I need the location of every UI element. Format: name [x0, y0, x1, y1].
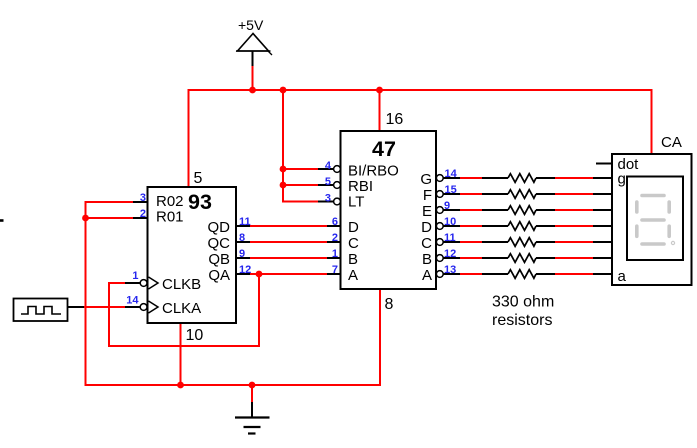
svg-text:CLKB: CLKB: [162, 276, 201, 293]
wire clock to CLKA: [84, 306, 125, 308]
segment net C wire: [443, 241, 612, 243]
wire ground stub: [251, 385, 253, 403]
ground: [235, 402, 270, 434]
display segment e: [635, 226, 639, 236]
U2 pin stub 5: [318, 184, 334, 186]
U1 pin number 11: [239, 216, 251, 228]
U2 pin number 2: [332, 232, 338, 244]
svg-text:R02: R02: [156, 193, 184, 210]
U2 pin number 10: [444, 216, 456, 228]
junction BI/RBO: [280, 166, 287, 173]
wire QB to B: [250, 257, 327, 259]
svg-text:C: C: [348, 235, 359, 252]
U2 output bubbles pins 14 15 9 10 11 12 13: [436, 175, 443, 278]
svg-text:CA: CA: [661, 134, 682, 151]
U1 CLKA bubble pin 14: [140, 304, 147, 311]
U2 pin number 16: [386, 111, 404, 128]
resistor R6 330 ohm: [508, 254, 536, 263]
svg-text:4: 4: [325, 160, 332, 172]
U1 pin number 10: [186, 327, 204, 344]
wire reset vertical to ground rail: [85, 201, 87, 386]
U2 pin stub C: [327, 241, 341, 243]
U2 pin stub 4: [318, 168, 334, 170]
svg-text:A: A: [348, 267, 358, 284]
display segment g: [642, 218, 664, 222]
wire rail to display CA: [651, 89, 653, 154]
svg-text:47: 47: [372, 137, 396, 161]
U2 pin stub A: [327, 273, 341, 275]
svg-text:5: 5: [194, 170, 203, 187]
svg-text:LT: LT: [348, 194, 364, 211]
wire R02 pin 3: [86, 201, 134, 203]
wire QA to A: [250, 273, 327, 275]
U1 pin number 2: [140, 208, 146, 220]
U1 pin number 14: [126, 295, 139, 307]
svg-text:2: 2: [140, 208, 146, 220]
U1 CLKA edge chevron: [149, 301, 159, 313]
display segment c: [667, 226, 671, 236]
junction rail at control vertical: [280, 87, 287, 94]
svg-text:BI/RBO: BI/RBO: [348, 163, 399, 180]
svg-text:12: 12: [239, 264, 251, 276]
resistor R4 330 ohm: [508, 222, 536, 231]
svg-text:10: 10: [186, 327, 204, 344]
U2 pin number 1: [332, 248, 338, 260]
U1 pin stub CLKA: [125, 306, 140, 308]
U2 bubble pin 5: [334, 182, 341, 189]
resistor R2 330 ohm: [508, 190, 536, 199]
junction ground rail pin10: [177, 382, 184, 389]
U1 CLKB edge chevron: [149, 277, 159, 289]
stray mark left edge: [0, 219, 4, 222]
svg-text:G: G: [420, 171, 432, 188]
svg-text:a: a: [618, 268, 627, 285]
wire clock output stub: [67, 306, 84, 308]
wire U2 pin 8 to ground rail: [379, 289, 381, 386]
svg-text:9: 9: [239, 248, 245, 260]
segment net G wire: [443, 177, 612, 179]
svg-text:7: 7: [332, 264, 338, 276]
U1 pin number 1: [132, 270, 138, 282]
svg-text:2: 2: [332, 232, 338, 244]
U2 pin number 4: [325, 160, 332, 172]
counter U1 7493: [148, 187, 237, 323]
U1 pin number 12: [239, 264, 251, 276]
segment net A wire: [443, 273, 612, 275]
U1 pin number 9: [239, 248, 245, 260]
U1 pin number 3: [140, 192, 146, 204]
power +5V symbol: [236, 17, 272, 66]
wire vertical to U2 control pins: [282, 89, 284, 202]
U1 pin stub QD: [236, 225, 250, 227]
display dot pin stub: [596, 163, 612, 165]
U2 pin number 3: [325, 193, 331, 205]
svg-text:CLKA: CLKA: [162, 300, 201, 317]
U1 pin stub QC: [236, 241, 250, 243]
segment net F wire: [443, 193, 612, 195]
seven segment display DS1: [612, 154, 692, 285]
resistor R5 330 ohm: [508, 238, 536, 247]
segment net B wire: [443, 257, 612, 259]
U2 bubble pin 3: [334, 198, 341, 205]
segment net D wire: [443, 225, 612, 227]
svg-text:3: 3: [140, 192, 146, 204]
U1 pin number 5: [194, 170, 203, 187]
wire rail to U2 pin 16: [379, 89, 381, 131]
svg-text:RBI: RBI: [348, 178, 373, 195]
display digit frame: [627, 177, 683, 261]
U2 pin number 5: [325, 176, 331, 188]
U1 pin stub R02: [133, 201, 148, 203]
svg-text:C: C: [421, 235, 432, 252]
wire QD to D: [250, 225, 327, 227]
display segment d: [642, 242, 664, 246]
U2 pin number 14: [445, 168, 458, 180]
wire R01 pin 2: [86, 217, 134, 219]
wire U2 pin 5 RBI: [282, 184, 318, 186]
U2 pin stub D: [327, 225, 341, 227]
display segment f: [635, 202, 639, 212]
U2 pin number 9: [444, 200, 450, 212]
svg-text:11: 11: [239, 216, 251, 228]
svg-text:1: 1: [332, 248, 338, 260]
svg-text:QC: QC: [208, 235, 231, 252]
wire U2 pin 4 BI/RBO: [282, 168, 318, 170]
U2 pin number 8: [385, 296, 394, 313]
U1 pin stub R01: [133, 217, 148, 219]
wire rail to U1 pin 5: [188, 89, 190, 187]
decoder U2 7447: [341, 131, 437, 289]
display segment b: [667, 202, 671, 212]
svg-text:D: D: [421, 219, 432, 236]
svg-text:1: 1: [132, 270, 138, 282]
svg-text:E: E: [422, 203, 432, 220]
U1 pin stub QB: [236, 257, 250, 259]
junction ground rail at ground: [249, 382, 256, 389]
resistor R3 330 ohm: [508, 206, 536, 215]
svg-text:5: 5: [325, 176, 331, 188]
junction RBI: [280, 182, 287, 189]
U2 pin number 7: [332, 264, 338, 276]
U2 pin stub 3: [318, 201, 334, 203]
svg-text:3: 3: [325, 193, 331, 205]
svg-text:resistors: resistors: [492, 312, 552, 329]
svg-text:F: F: [423, 187, 432, 204]
junction QA feedback: [256, 271, 263, 278]
wire U2 pin 3 LT: [282, 201, 318, 203]
U2 pin number 11: [444, 232, 456, 244]
U1 pin stub QA: [236, 273, 250, 275]
U2 pin number 13: [444, 264, 456, 276]
U1 CLKB bubble pin 1: [140, 280, 147, 287]
svg-text:+5V: +5V: [238, 17, 264, 33]
wire QA to CLKB feedback: [109, 274, 259, 347]
junction rail at pin 16: [376, 87, 383, 94]
display decimal point: [671, 241, 674, 244]
svg-text:93: 93: [188, 190, 212, 214]
U2 pin number 12: [444, 248, 456, 260]
label CA common anode: [661, 134, 682, 151]
clock source V1: [14, 299, 68, 322]
U2 pin stub B: [327, 257, 341, 259]
wire QC to C: [250, 241, 327, 243]
svg-text:g: g: [618, 171, 626, 188]
wire ground rail: [85, 384, 381, 386]
display segment a: [642, 194, 664, 198]
svg-text:16: 16: [386, 111, 404, 128]
resistor R1 330 ohm: [508, 174, 536, 183]
U2 bubble pin 4: [334, 166, 341, 173]
wire +5V rail: [189, 89, 652, 91]
U1 pin stub CLKB: [125, 282, 140, 284]
U1 pin number 8: [239, 232, 245, 244]
svg-text:14: 14: [126, 295, 139, 307]
svg-text:QA: QA: [208, 267, 230, 284]
wire U1 pin 10 to ground rail: [180, 323, 182, 385]
wire +5V drop: [252, 66, 254, 91]
svg-text:R01: R01: [156, 209, 184, 226]
svg-text:330 ohm: 330 ohm: [492, 294, 554, 311]
svg-text:B: B: [422, 251, 432, 268]
svg-text:6: 6: [332, 216, 338, 228]
U2 pin number 6: [332, 216, 338, 228]
svg-text:QB: QB: [208, 251, 230, 268]
junction R01: [82, 215, 89, 222]
resistor R7 330 ohm: [508, 270, 536, 279]
svg-text:QD: QD: [208, 219, 231, 236]
segment net E wire: [443, 209, 612, 211]
svg-text:8: 8: [385, 296, 394, 313]
svg-text:8: 8: [239, 232, 245, 244]
svg-text:A: A: [422, 267, 432, 284]
junction rail at +5V: [249, 87, 256, 94]
svg-text:B: B: [348, 251, 358, 268]
U2 pin number 15: [445, 184, 457, 196]
label 330 ohm resistors: [492, 294, 554, 330]
svg-text:D: D: [348, 219, 359, 236]
